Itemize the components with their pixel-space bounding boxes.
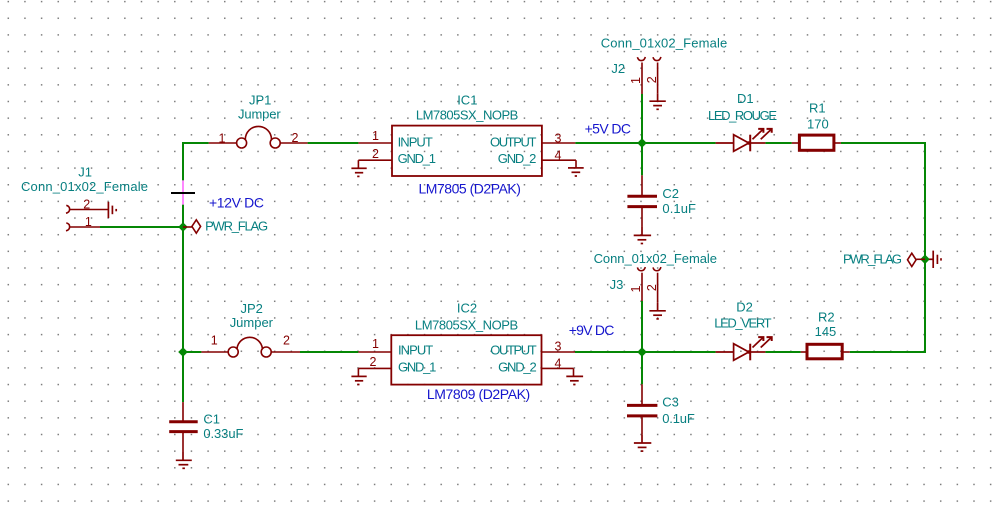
- wire: R2 to right corner: [850, 351, 925, 353]
- svg-text:1: 1: [372, 129, 379, 143]
- svg-text:1: 1: [219, 132, 226, 146]
- svg-text:PWR_FLAG: PWR_FLAG: [205, 219, 268, 234]
- svg-text:GND_1: GND_1: [398, 359, 436, 374]
- svg-text:1: 1: [629, 77, 643, 84]
- wire: left vertical lower segment to C1: [182, 352, 184, 402]
- regulator IC1: [358, 92, 576, 176]
- ground at IC2 pin2: [351, 376, 366, 384]
- IC1 pin 1 line: [358, 142, 392, 144]
- ground at J3 pin2: [649, 303, 665, 319]
- wire: left vertical below +12V symbol: [182, 205, 184, 227]
- power symbol +12V (hidden pin): [171, 180, 195, 204]
- ground at C3: [634, 435, 651, 451]
- svg-text:LED_VERT: LED_VERT: [714, 315, 771, 330]
- svg-text:0.1uF: 0.1uF: [662, 411, 695, 426]
- svg-text:R1: R1: [809, 101, 826, 116]
- ground at IC1 pin2: [351, 168, 366, 176]
- PWR_FLAG right: [908, 253, 926, 266]
- capacitor C2: [627, 175, 696, 226]
- svg-text:LM7805SX_NOPB: LM7805SX_NOPB: [416, 107, 518, 122]
- wire: IC2 pin3 to +9V node: [575, 351, 642, 353]
- svg-text:2: 2: [292, 131, 299, 145]
- ground at J2 pin2: [649, 93, 665, 109]
- J2 pin 1 socket and pin line: [637, 57, 645, 94]
- svg-text:1: 1: [211, 334, 218, 348]
- svg-text:2: 2: [645, 76, 659, 83]
- wire: R1 to right corner: [841, 142, 925, 144]
- junction at +12V / PWR_FLAG node: [178, 222, 188, 232]
- svg-text:+5V DC: +5V DC: [585, 121, 631, 137]
- IC2 body outline: [391, 335, 541, 384]
- svg-text:0.1uF: 0.1uF: [662, 201, 696, 216]
- wire: junction to JP2 pin1: [183, 351, 201, 353]
- wire: D2 to R2: [765, 351, 800, 353]
- svg-text:Conn_01x02_Female: Conn_01x02_Female: [601, 35, 728, 50]
- svg-text:C3: C3: [662, 395, 679, 410]
- svg-text:4: 4: [555, 149, 562, 163]
- svg-text:JP1: JP1: [249, 93, 271, 108]
- J1 pin 1 socket and pin line: [66, 223, 100, 231]
- IC1 pin 4 line: [542, 160, 576, 168]
- svg-text:2: 2: [645, 284, 659, 291]
- capacitor C1: [169, 402, 243, 452]
- ground at C2: [634, 226, 651, 243]
- J3 pin 1 socket and pin line: [637, 267, 645, 301]
- ground at IC1 pin4: [568, 168, 584, 176]
- svg-text:GND_2: GND_2: [498, 151, 537, 166]
- wire: top rail to JP1 pin1: [182, 142, 209, 144]
- svg-text:PWR_FLAG: PWR_FLAG: [843, 252, 902, 267]
- ground at J1 pin2 (rotated): [108, 202, 116, 218]
- R2 pin 2 line: [842, 351, 850, 353]
- IC1 pin 2 line: [358, 160, 392, 168]
- ground at IC2 pin4: [566, 376, 583, 384]
- regulator IC2: [358, 300, 575, 384]
- wire: +5V node down to C2: [641, 143, 643, 175]
- wire: J3 pin1 drop to +9V node: [641, 301, 643, 352]
- svg-text:3: 3: [555, 131, 562, 145]
- svg-text:GND_1: GND_1: [398, 151, 436, 166]
- svg-text:170: 170: [807, 116, 829, 131]
- svg-text:JP2: JP2: [241, 301, 263, 316]
- IC2 pin 1 line: [358, 351, 391, 353]
- svg-text:2: 2: [83, 197, 90, 211]
- wire: +5V node to D1: [642, 142, 716, 144]
- svg-text:C1: C1: [203, 411, 220, 426]
- connector J1: [21, 165, 148, 231]
- wire: D1 to R1: [765, 142, 791, 144]
- J1 pin 2 socket and pin line: [66, 205, 108, 213]
- svg-text:C2: C2: [662, 186, 679, 201]
- wire: +9V node down to C3: [641, 352, 643, 384]
- wire: left vertical mid segment: [182, 227, 184, 352]
- connector J3: [594, 251, 717, 303]
- svg-text:4: 4: [555, 357, 562, 371]
- D2 diode symbol with emission arrows: [716, 337, 772, 360]
- ground at C1: [176, 452, 192, 468]
- junction at right PWR_FLAG node: [920, 255, 930, 265]
- wire: JP2 pin2 to IC2 pin1: [300, 351, 358, 353]
- svg-text:IC2: IC2: [457, 300, 477, 315]
- junction at +9V node: [637, 347, 647, 357]
- svg-text:Conn_01x02_Female: Conn_01x02_Female: [21, 179, 148, 194]
- IC2 pin 4 line: [542, 368, 574, 376]
- R2 pin 1 line: [801, 351, 807, 353]
- svg-text:IC1: IC1: [457, 92, 477, 107]
- wire: IC1 pin3 to +5V node: [575, 142, 642, 144]
- resistor R1: [792, 101, 841, 151]
- svg-text:J2: J2: [611, 61, 625, 76]
- svg-text:LM7805SX_NOPB: LM7805SX_NOPB: [415, 317, 518, 332]
- C3 plates and leads: [627, 384, 657, 435]
- wire: J1 pin1 to left vertical: [100, 226, 183, 228]
- svg-text:J1: J1: [78, 165, 92, 180]
- svg-text:+12V DC: +12V DC: [209, 194, 264, 210]
- svg-text:OUTPUT: OUTPUT: [490, 134, 536, 149]
- PWR_FLAG left: [183, 220, 201, 233]
- wire: J2 pin1 drop to +5V node: [641, 94, 643, 143]
- svg-text:GND_2: GND_2: [498, 359, 537, 374]
- jumper JP1: [209, 93, 308, 148]
- JP1 body: pins, pads and arc: [209, 126, 308, 148]
- wire: JP1 pin2 to IC1 pin1: [308, 142, 359, 144]
- svg-text:145: 145: [815, 324, 837, 339]
- ground right of PWR_FLAG (rotated): [929, 251, 941, 268]
- J3 pin 2 socket and pin line: [653, 267, 661, 303]
- R2 body: [807, 344, 842, 359]
- svg-text:1: 1: [629, 285, 643, 292]
- svg-text:LM7809 (D2PAK): LM7809 (D2PAK): [427, 386, 530, 402]
- R1 pin 2 line: [834, 142, 841, 144]
- jumper JP2: [201, 301, 300, 357]
- svg-text:INPUT: INPUT: [398, 343, 433, 358]
- junction at JP2 input node: [178, 347, 188, 357]
- svg-text:Jumper: Jumper: [230, 315, 274, 330]
- svg-text:2: 2: [372, 147, 379, 161]
- C1 plates and leads: [169, 402, 198, 452]
- svg-text:Conn_01x02_Female: Conn_01x02_Female: [594, 251, 717, 266]
- JP2 body: pins, pads and arc: [201, 337, 300, 357]
- svg-text:D1: D1: [737, 91, 754, 106]
- J2 pin 2 socket and pin line: [653, 57, 661, 93]
- svg-text:3: 3: [555, 339, 562, 353]
- wire: right vertical rail: [924, 142, 926, 353]
- svg-text:D2: D2: [736, 299, 753, 314]
- svg-text:2: 2: [370, 355, 377, 369]
- svg-text:J3: J3: [610, 277, 624, 292]
- IC2 pin 2 line: [358, 368, 391, 376]
- svg-text:Jumper: Jumper: [238, 106, 281, 121]
- IC2 pin 3 line: [542, 351, 576, 353]
- C2 plates and leads: [627, 175, 657, 226]
- wire: +9V node to D2: [642, 351, 716, 353]
- junction at +5V node: [637, 138, 647, 148]
- LED D2: [714, 299, 772, 360]
- svg-text:INPUT: INPUT: [398, 134, 433, 149]
- svg-text:1: 1: [372, 337, 379, 351]
- R1 pin 1 line: [792, 142, 800, 144]
- svg-text:0.33uF: 0.33uF: [203, 426, 243, 441]
- resistor R2: [801, 310, 850, 359]
- svg-text:1: 1: [85, 215, 92, 229]
- IC1 pin 3 line: [542, 142, 575, 144]
- capacitor C3: [627, 384, 695, 435]
- svg-text:2: 2: [283, 334, 290, 348]
- svg-text:OUTPUT: OUTPUT: [490, 343, 536, 358]
- LED D1: [708, 91, 777, 151]
- svg-text:LED_ROUGE: LED_ROUGE: [708, 108, 777, 123]
- IC1 body outline: [392, 126, 542, 176]
- wire: left vertical top segment: [182, 142, 184, 180]
- svg-text:LM7805 (D2PAK): LM7805 (D2PAK): [419, 180, 521, 196]
- svg-text:+9V DC: +9V DC: [569, 322, 615, 338]
- D1 diode symbol with emission arrows: [716, 129, 772, 151]
- R1 body: [799, 135, 834, 150]
- svg-text:R2: R2: [818, 310, 835, 325]
- connector J2: [601, 35, 728, 94]
